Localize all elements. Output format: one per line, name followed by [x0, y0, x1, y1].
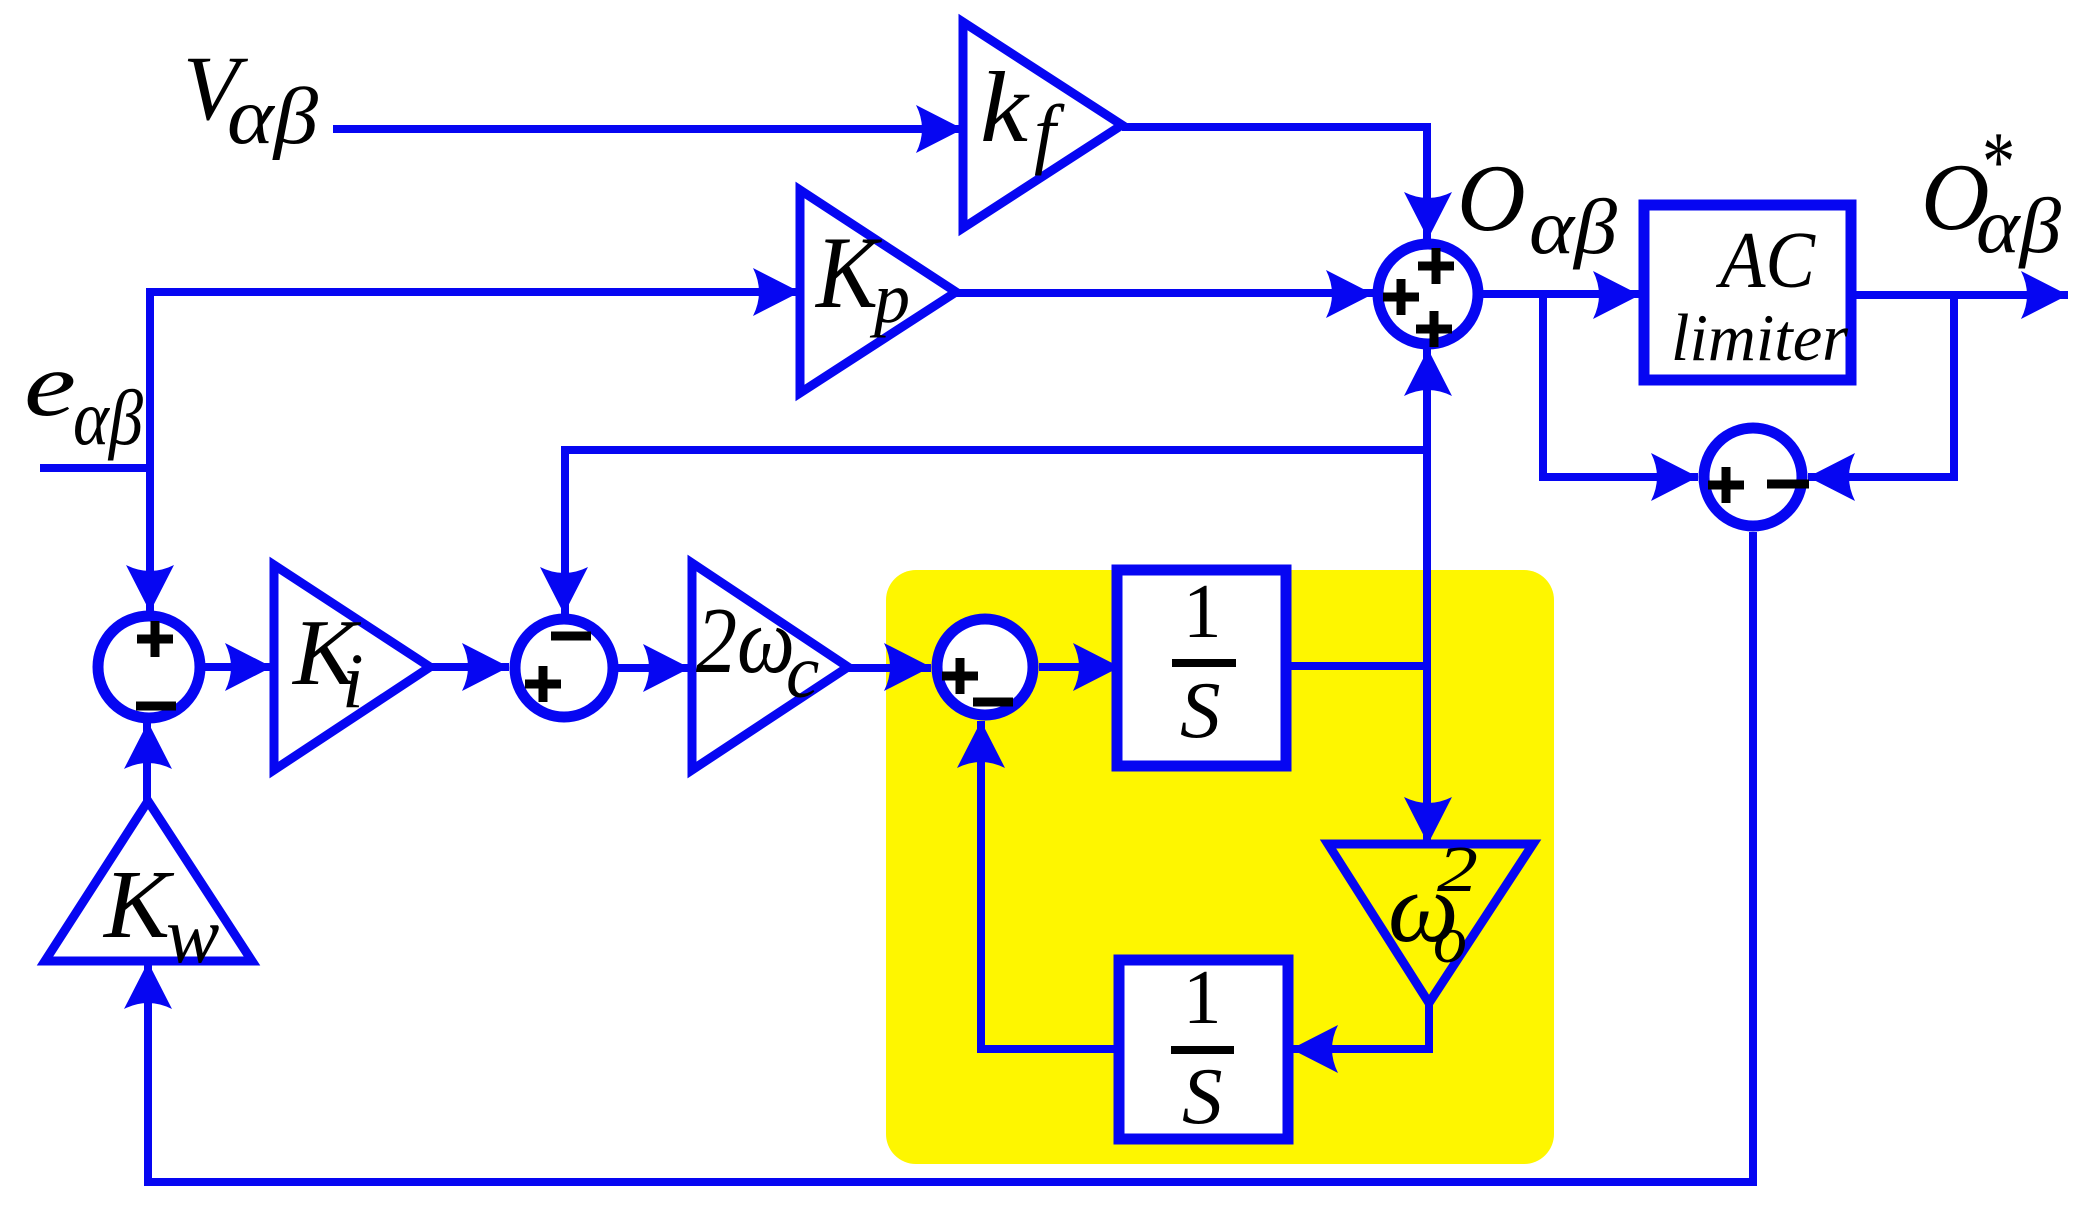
- svg-text:limiter: limiter: [1671, 301, 1849, 375]
- svg-text:S: S: [1180, 665, 1221, 755]
- svg-text:αβ: αβ: [227, 73, 318, 161]
- svg-text:k: k: [980, 51, 1030, 163]
- svg-text:i: i: [342, 637, 364, 724]
- svg-text:αβ: αβ: [1976, 182, 2061, 269]
- svg-text:K: K: [102, 851, 174, 958]
- svg-text:2: 2: [1437, 833, 1478, 906]
- svg-text:o: o: [1433, 901, 1467, 977]
- svg-text:αβ: αβ: [1529, 183, 1617, 270]
- svg-text:c: c: [786, 631, 819, 714]
- svg-text:p: p: [869, 258, 910, 338]
- svg-text:w: w: [166, 892, 219, 980]
- svg-text:S: S: [1182, 1051, 1223, 1141]
- svg-text:1: 1: [1183, 568, 1222, 654]
- svg-text:K: K: [814, 216, 883, 330]
- svg-text:αβ: αβ: [73, 374, 143, 461]
- svg-text:1: 1: [1183, 954, 1222, 1040]
- svg-text:2ω: 2ω: [696, 589, 795, 693]
- svg-text:AC: AC: [1715, 215, 1815, 305]
- svg-text:e: e: [24, 334, 76, 435]
- svg-text:O: O: [1457, 145, 1526, 251]
